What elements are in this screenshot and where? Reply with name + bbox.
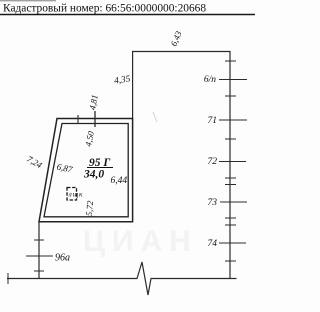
svg-text:72: 72	[208, 157, 218, 167]
svg-text:5,72: 5,72	[84, 200, 95, 217]
svg-text:6/п: 6/п	[204, 75, 216, 85]
svg-text:71: 71	[208, 116, 218, 126]
svg-text:Кадастровый номер: 66:56:00000: Кадастровый номер: 66:56:0000000:20668	[3, 3, 206, 15]
svg-text:6,44: 6,44	[111, 176, 128, 186]
svg-text:73: 73	[208, 198, 218, 208]
svg-text:74: 74	[208, 239, 218, 249]
svg-text:96а: 96а	[55, 253, 70, 264]
svg-text:ЦИАН: ЦИАН	[83, 225, 198, 258]
svg-text:лщк: лщк	[68, 190, 84, 199]
svg-text:34,0: 34,0	[83, 169, 104, 181]
